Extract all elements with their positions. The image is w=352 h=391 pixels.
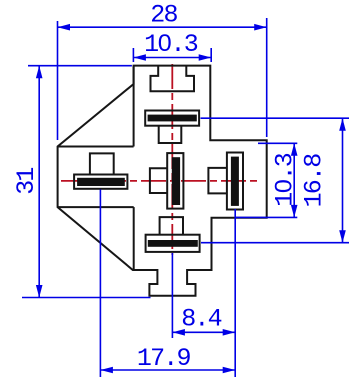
arrow 10.3 top right [199, 54, 212, 61]
extension line right 28 [266, 18, 268, 137]
terminal T5 fill [231, 157, 239, 206]
arrow 10.3 right bottom [291, 205, 298, 218]
arrow 28 right [254, 24, 267, 31]
terminal T1 bar outline [145, 111, 199, 126]
terminal T2 bar outline [146, 235, 200, 252]
svg-text:17.9: 17.9 [137, 344, 191, 373]
dimension line 8.4 [172, 331, 235, 333]
extension line top 31 [28, 65, 132, 67]
extension tick left 10.3 top [132, 48, 134, 62]
terminal T2 fill [148, 240, 198, 247]
extension line top right 10.3 [258, 142, 297, 144]
dimension line 31 [38, 66, 40, 298]
arrow 31 top [36, 66, 43, 79]
svg-text:28: 28 [150, 0, 177, 29]
arrow 17.9 right [223, 367, 236, 374]
terminal T3 neck [90, 153, 114, 174]
extension tick right 10.3 top [210, 48, 212, 62]
terminal T4 outline [167, 153, 183, 209]
chamfer leg lower [133, 207, 135, 269]
arrow 8.4 right [223, 329, 236, 336]
arrow 31 bottom [36, 285, 43, 298]
extension line bottom 31 [22, 297, 151, 299]
centerline vertical [171, 64, 173, 255]
terminal T2 neck [160, 217, 183, 235]
extension line left 28 [57, 21, 59, 140]
arrow 10.3 right top [291, 143, 298, 156]
arrow 16.8 top [339, 118, 346, 131]
extension line right slot [234, 209, 236, 377]
terminal T1 fill [148, 115, 197, 122]
centerline horizontal [61, 180, 261, 182]
terminal T4 arm [150, 168, 167, 193]
chamfer leg upper [133, 66, 135, 147]
terminal T3 bar outline [74, 175, 127, 189]
terminal T4 fill [172, 157, 180, 205]
extension line left slot [99, 190, 101, 378]
extension line top 16.8 [201, 117, 350, 119]
terminal T5 arm [208, 168, 227, 194]
svg-text:10.3: 10.3 [144, 30, 198, 59]
dimension line 28 [58, 26, 267, 28]
terminal T3 fill [77, 178, 125, 186]
arrow 10.3 top left [133, 54, 146, 61]
dimension line 16.8 [342, 118, 344, 243]
svg-text:8.4: 8.4 [181, 305, 221, 334]
arrow 8.4 left [172, 329, 185, 336]
arrow 28 left [58, 24, 71, 31]
left block bottom edge [58, 206, 134, 208]
extension line bottom right 10.3 [236, 216, 297, 218]
left block top edge [58, 146, 134, 148]
arrow 17.9 left [100, 367, 113, 374]
extension line center 8.4 [171, 253, 173, 338]
dimension line 17.9 [100, 369, 235, 371]
arrow 16.8 bottom [339, 230, 346, 243]
body outline [58, 66, 267, 296]
svg-text:10.3: 10.3 [271, 153, 300, 207]
terminal T1 neck [159, 126, 182, 143]
dimension line 10.3 right [293, 143, 295, 217]
extension line bottom 16.8 [201, 242, 349, 244]
keyway notch [151, 66, 195, 91]
dimension line 10.3 top [133, 57, 211, 59]
terminal T5 outline [227, 153, 243, 210]
svg-text:16.8: 16.8 [300, 154, 329, 208]
svg-text:31: 31 [12, 168, 41, 195]
